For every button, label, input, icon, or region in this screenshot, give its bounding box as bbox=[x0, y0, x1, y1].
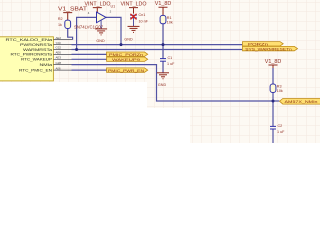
resistor R2 bbox=[65, 20, 71, 28]
wire NMIa -> AM57X_NMIn bbox=[72, 65, 280, 101]
svg-text:G22: G22 bbox=[56, 46, 62, 50]
wire RTC_PMIC_EN -> PMIC_PWR_EN bbox=[72, 69, 107, 71]
wire R3 to node bbox=[272, 93, 274, 102]
power port V1_8D (R3) bbox=[265, 59, 282, 68]
svg-text:VINT_LDO: VINT_LDO bbox=[85, 2, 111, 8]
node R1 / PORZn bbox=[162, 43, 165, 46]
svg-text:1k: 1k bbox=[58, 23, 62, 27]
svg-text:10k: 10k bbox=[277, 89, 283, 93]
pin numbers bbox=[56, 36, 62, 71]
net name PWRONRSTa bbox=[20, 42, 53, 47]
svg-text:10k: 10k bbox=[167, 20, 173, 24]
svg-text:PMIC_PWR_EN: PMIC_PWR_EN bbox=[108, 69, 144, 73]
node U1 out / PORZn bbox=[120, 43, 123, 46]
wire R2 to pin AE2 bbox=[68, 29, 73, 40]
power port VINT_LDO (Cn1) bbox=[121, 2, 147, 14]
svg-text:10 nF: 10 nF bbox=[139, 19, 149, 23]
svg-text:RTC_WAKEUP: RTC_WAKEUP bbox=[21, 57, 52, 62]
IC sheet-entry box (left yellow box) bbox=[0, 37, 53, 81]
no-fit X mark bbox=[130, 14, 136, 20]
svg-text:1 uF: 1 uF bbox=[277, 130, 285, 134]
svg-text:GND: GND bbox=[96, 39, 105, 43]
svg-text:C2: C2 bbox=[278, 124, 283, 128]
wire RTC_PWRONRSTa -> PMIC_PORZn bbox=[72, 53, 107, 55]
svg-text:Y23: Y23 bbox=[56, 41, 62, 45]
svg-text:C1: C1 bbox=[168, 56, 173, 60]
wire RTC_WAKEUP -> WAKEUP9 bbox=[72, 58, 107, 60]
svg-text:AE3: AE3 bbox=[56, 56, 62, 60]
wire R1 down to PWRONRSTa node and C1 bbox=[162, 24, 164, 59]
capacitor Cn1 (not fitted) bbox=[130, 15, 137, 18]
svg-text:WARMRSTa: WARMRSTa bbox=[23, 47, 53, 52]
node R3 / NMIn bbox=[272, 100, 275, 103]
ground (U1) bbox=[95, 29, 107, 35]
ground (Cn1) bbox=[128, 26, 140, 32]
net name WARMRSTa bbox=[23, 47, 53, 52]
value SN74LVC1G07 bbox=[74, 24, 104, 29]
resistor R3 bbox=[270, 84, 276, 93]
wire U1 input to WARMRSTa bbox=[77, 17, 97, 49]
port AM57X_NMIn bbox=[280, 99, 320, 105]
wire V1_8D to R3 bbox=[272, 68, 274, 84]
net name NMIa bbox=[40, 62, 54, 67]
wire node to C2 bbox=[272, 101, 274, 126]
wires (blue) bbox=[68, 17, 280, 143]
port PMIC_PWR_EN bbox=[107, 68, 148, 73]
svg-text:A06: A06 bbox=[56, 66, 62, 70]
svg-text:RTC_PWRONRSTa: RTC_PWRONRSTa bbox=[11, 52, 54, 57]
ground (C1) bbox=[157, 73, 169, 79]
port SYS_WARMRESETn bbox=[243, 46, 298, 51]
svg-text:NMIa: NMIa bbox=[40, 62, 54, 67]
resistor R1 bbox=[160, 15, 166, 23]
svg-text:GND: GND bbox=[158, 83, 167, 87]
svg-text:V1_SBAT: V1_SBAT bbox=[58, 6, 87, 12]
svg-text:PMIC_PORZn: PMIC_PORZn bbox=[109, 53, 143, 57]
svg-text:SYS_WARMRESETn: SYS_WARMRESETn bbox=[245, 47, 292, 51]
svg-text:GND: GND bbox=[124, 38, 133, 42]
sheet background (cream grid areas over white page) bbox=[0, 0, 320, 143]
net name RTC_PMIC_EN bbox=[19, 67, 52, 72]
svg-text:Cn1: Cn1 bbox=[139, 13, 146, 17]
pin stubs bbox=[53, 40, 72, 71]
net name RTC_PWRONRSTa bbox=[11, 52, 54, 57]
wire WARMRSTa -> SYS_WARMRESETn bbox=[72, 49, 243, 51]
port PORZn bbox=[243, 42, 284, 47]
svg-text:G28: G28 bbox=[56, 61, 62, 65]
svg-text:PWRONRSTa: PWRONRSTa bbox=[20, 42, 53, 47]
svg-text:AE2: AE2 bbox=[56, 36, 62, 40]
power port V1_8D (R1) bbox=[155, 1, 172, 15]
svg-text:AM57X_NMIn: AM57X_NMIn bbox=[285, 99, 318, 104]
svg-text:WAKEUP9: WAKEUP9 bbox=[112, 58, 140, 62]
svg-text:R1: R1 bbox=[167, 16, 172, 20]
op-amp buffer U1 bbox=[97, 12, 107, 23]
svg-text:V1_8D: V1_8D bbox=[265, 59, 282, 65]
capacitor C2 bbox=[270, 126, 276, 129]
svg-text:RTC_KALDO_ENa: RTC_KALDO_ENa bbox=[6, 37, 54, 42]
net name RTC_WAKEUP bbox=[21, 57, 52, 62]
wire PWRONRSTa -> PORZn bbox=[72, 44, 243, 46]
power port VINT_LDO (U1) bbox=[85, 2, 111, 13]
junction dots bbox=[75, 43, 274, 102]
port PMIC_PORZn bbox=[107, 52, 148, 57]
wire C2 down bbox=[272, 129, 274, 143]
svg-text:R2: R2 bbox=[58, 17, 63, 21]
svg-text:AE6: AE6 bbox=[56, 51, 62, 55]
svg-text:RTC_PMIC_EN: RTC_PMIC_EN bbox=[19, 67, 52, 72]
capacitor C1 bbox=[160, 59, 166, 62]
svg-text:U1: U1 bbox=[111, 5, 116, 9]
wire U1 output to PWRONRSTa bbox=[106, 17, 121, 44]
U1 gnd stem bbox=[100, 20, 102, 29]
svg-text:R3: R3 bbox=[277, 84, 282, 88]
svg-text:PORZn: PORZn bbox=[248, 43, 268, 47]
wire C1 to GND bbox=[162, 61, 164, 72]
power port V1_SBAT bbox=[58, 6, 87, 20]
svg-text:V1_8D: V1_8D bbox=[155, 1, 172, 7]
port WAKEUP9 bbox=[107, 57, 148, 62]
pin 2 bbox=[110, 10, 112, 14]
svg-text:VINT_LDO: VINT_LDO bbox=[121, 2, 147, 8]
svg-text:1 uF: 1 uF bbox=[167, 62, 175, 66]
net name RTC_KALDO_ENa bbox=[6, 37, 54, 42]
node U1 in / WARMRSTa bbox=[75, 48, 78, 51]
pin 4 bbox=[88, 11, 90, 15]
